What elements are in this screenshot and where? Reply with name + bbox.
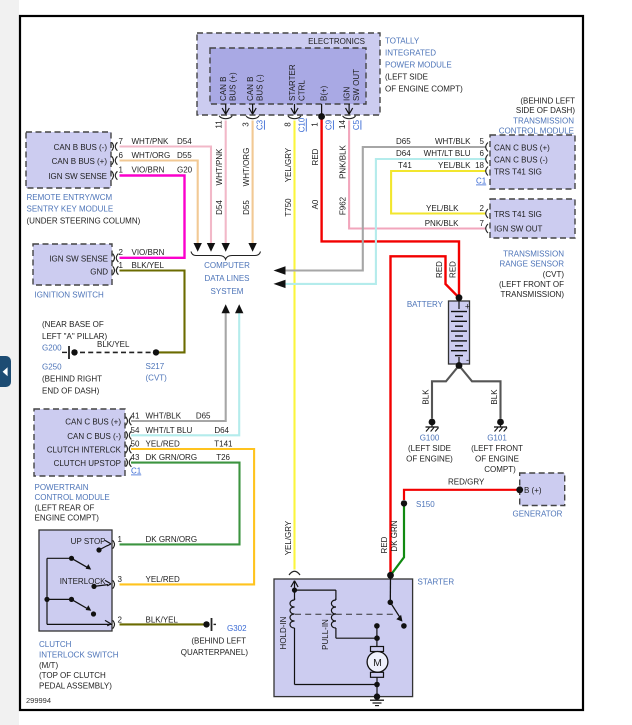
- svg-text:C9: C9: [325, 119, 334, 130]
- svg-text:INTERLOCK: INTERLOCK: [60, 577, 106, 586]
- svg-text:CAN C BUS (-): CAN C BUS (-): [494, 156, 548, 165]
- svg-text:GND: GND: [90, 267, 108, 276]
- svg-text:(BEHIND LEFT: (BEHIND LEFT: [520, 97, 575, 106]
- svg-text:+: +: [465, 302, 470, 312]
- svg-text:299994: 299994: [26, 696, 51, 705]
- svg-text:T750: T750: [284, 198, 293, 217]
- svg-text:PULL-IN: PULL-IN: [321, 619, 330, 650]
- svg-text:D65: D65: [396, 137, 411, 146]
- svg-text:WHT/LT BLU: WHT/LT BLU: [146, 426, 193, 435]
- svg-text:C10: C10: [298, 117, 307, 132]
- svg-text:(CVT): (CVT): [543, 270, 565, 279]
- svg-text:BLK: BLK: [422, 389, 431, 405]
- svg-text:DK GRN: DK GRN: [390, 520, 399, 551]
- svg-text:-: -: [466, 355, 469, 365]
- svg-text:1: 1: [119, 261, 124, 270]
- svg-text:T41: T41: [398, 161, 412, 170]
- svg-text:TRS T41 SIG: TRS T41 SIG: [494, 168, 542, 177]
- svg-text:2: 2: [119, 248, 124, 257]
- svg-text:BLK/YEL: BLK/YEL: [132, 261, 165, 270]
- svg-text:43: 43: [131, 453, 140, 462]
- svg-text:F962: F962: [339, 196, 348, 215]
- svg-text:CAN B BUS (+): CAN B BUS (+): [52, 157, 108, 166]
- svg-text:POWER MODULE: POWER MODULE: [385, 61, 452, 70]
- svg-text:CLUTCH UPSTOP: CLUTCH UPSTOP: [54, 459, 121, 468]
- svg-text:BLK/YEL: BLK/YEL: [146, 615, 179, 624]
- svg-text:(LEFT FRONT OF: (LEFT FRONT OF: [499, 280, 564, 289]
- svg-text:IGN: IGN: [343, 87, 352, 101]
- svg-text:(TOP OF CLUTCH: (TOP OF CLUTCH: [39, 671, 106, 680]
- svg-text:T141: T141: [214, 440, 233, 449]
- svg-text:(NEAR BASE OF: (NEAR BASE OF: [42, 320, 104, 329]
- svg-text:1: 1: [118, 535, 123, 544]
- svg-text:COMPUTER: COMPUTER: [204, 261, 250, 270]
- svg-text:INTERLOCK SWITCH: INTERLOCK SWITCH: [39, 651, 119, 660]
- svg-text:CONTROL MODULE: CONTROL MODULE: [35, 493, 110, 502]
- svg-text:(BEHIND RIGHT: (BEHIND RIGHT: [42, 375, 102, 384]
- svg-text:RED/GRY: RED/GRY: [448, 478, 485, 487]
- svg-text:DK GRN/ORG: DK GRN/ORG: [146, 453, 198, 462]
- svg-text:IGN SW OUT: IGN SW OUT: [494, 225, 543, 234]
- svg-text:M: M: [373, 657, 382, 669]
- svg-text:50: 50: [131, 440, 140, 449]
- svg-text:(M/T): (M/T): [39, 661, 58, 670]
- svg-text:COMPT): COMPT): [484, 465, 516, 474]
- svg-text:CLUTCH: CLUTCH: [39, 640, 72, 649]
- svg-text:1: 1: [119, 166, 124, 175]
- svg-text:INTEGRATED: INTEGRATED: [385, 49, 436, 58]
- svg-text:7: 7: [119, 137, 124, 146]
- svg-text:YEL/RED: YEL/RED: [146, 575, 180, 584]
- svg-text:G100: G100: [420, 434, 440, 443]
- svg-text:IGN SW SENSE: IGN SW SENSE: [48, 172, 107, 181]
- svg-text:CAN B: CAN B: [219, 77, 228, 101]
- svg-text:VIO/BRN: VIO/BRN: [132, 248, 165, 257]
- svg-text:RED: RED: [380, 536, 389, 553]
- svg-text:G20: G20: [177, 166, 193, 175]
- svg-text:TOTALLY: TOTALLY: [385, 37, 420, 46]
- svg-text:G250: G250: [42, 363, 62, 372]
- svg-text:CTRL: CTRL: [298, 80, 307, 101]
- svg-text:3: 3: [118, 575, 123, 584]
- svg-text:DATA LINES: DATA LINES: [204, 274, 249, 283]
- svg-text:8: 8: [283, 122, 292, 127]
- svg-text:QUARTERPANEL): QUARTERPANEL): [181, 648, 249, 657]
- svg-text:UP STOP: UP STOP: [71, 537, 106, 546]
- svg-text:WHT/LT BLU: WHT/LT BLU: [424, 149, 471, 158]
- svg-text:CAN C BUS (+): CAN C BUS (+): [494, 144, 550, 153]
- svg-text:REMOTE ENTRY/WCM: REMOTE ENTRY/WCM: [27, 193, 113, 202]
- svg-text:END OF DASH): END OF DASH): [42, 387, 100, 396]
- svg-text:54: 54: [131, 426, 140, 435]
- svg-text:G200: G200: [42, 344, 62, 353]
- svg-text:STARTER: STARTER: [418, 578, 455, 587]
- svg-text:C5: C5: [352, 119, 361, 130]
- svg-text:YEL/BLK: YEL/BLK: [438, 161, 471, 170]
- svg-text:B(+): B(+): [320, 85, 329, 101]
- svg-text:(LEFT SIDE: (LEFT SIDE: [408, 444, 451, 453]
- svg-text:BLK: BLK: [490, 389, 499, 405]
- svg-text:11: 11: [215, 120, 224, 129]
- svg-text:YEL/GRY: YEL/GRY: [284, 520, 293, 555]
- svg-text:SW OUT: SW OUT: [352, 69, 361, 101]
- svg-text:(UNDER STEERING COLUMN): (UNDER STEERING COLUMN): [27, 217, 141, 226]
- svg-text:IGNITION SWITCH: IGNITION SWITCH: [35, 291, 105, 300]
- svg-text:CAN C BUS (+): CAN C BUS (+): [65, 418, 121, 427]
- svg-text:CAN B BUS (-): CAN B BUS (-): [54, 143, 108, 152]
- svg-text:TRS T41 SIG: TRS T41 SIG: [494, 210, 542, 219]
- svg-text:OF ENGINE): OF ENGINE): [406, 455, 453, 464]
- svg-text:S150: S150: [416, 500, 435, 509]
- svg-text:5: 5: [480, 137, 485, 146]
- svg-text:TRANSMISSION: TRANSMISSION: [503, 250, 564, 259]
- svg-text:WHT/BLK: WHT/BLK: [146, 412, 182, 421]
- svg-text:D64: D64: [396, 149, 411, 158]
- svg-text:D54: D54: [177, 137, 192, 146]
- svg-text:TRANSMISSION: TRANSMISSION: [513, 117, 574, 126]
- svg-text:CAN B: CAN B: [246, 77, 255, 101]
- svg-text:A0: A0: [311, 199, 320, 209]
- svg-text:BUS (+): BUS (+): [229, 72, 238, 101]
- svg-text:D55: D55: [177, 151, 192, 160]
- svg-text:GENERATOR: GENERATOR: [513, 510, 563, 519]
- svg-text:POWERTRAIN: POWERTRAIN: [35, 483, 89, 492]
- svg-text:(CVT): (CVT): [146, 374, 168, 383]
- svg-text:YEL/BLK: YEL/BLK: [426, 204, 459, 213]
- svg-text:3: 3: [241, 122, 250, 127]
- svg-text:RED: RED: [449, 261, 458, 278]
- svg-text:T26: T26: [216, 453, 230, 462]
- svg-text:C3: C3: [256, 119, 265, 130]
- svg-text:SIDE OF DASH): SIDE OF DASH): [516, 106, 575, 115]
- svg-text:18: 18: [475, 161, 484, 170]
- svg-text:PNK/BLK: PNK/BLK: [339, 144, 348, 178]
- svg-text:BATTERY: BATTERY: [407, 300, 444, 309]
- svg-text:7: 7: [480, 219, 485, 228]
- svg-text:OF ENGINE: OF ENGINE: [475, 455, 519, 464]
- svg-text:6: 6: [119, 151, 124, 160]
- svg-text:WHT/ORG: WHT/ORG: [132, 151, 171, 160]
- svg-text:TRANSMISSION): TRANSMISSION): [500, 290, 564, 299]
- svg-text:(LEFT SIDE: (LEFT SIDE: [385, 73, 428, 82]
- svg-text:(BEHIND LEFT: (BEHIND LEFT: [191, 637, 246, 646]
- svg-text:B (+): B (+): [524, 486, 542, 495]
- svg-text:PEDAL ASSEMBLY): PEDAL ASSEMBLY): [39, 681, 112, 690]
- svg-text:BLK/YEL: BLK/YEL: [97, 340, 130, 349]
- svg-text:2: 2: [480, 204, 485, 213]
- svg-text:(LEFT REAR OF: (LEFT REAR OF: [35, 503, 95, 512]
- svg-text:ENGINE COMPT): ENGINE COMPT): [35, 514, 100, 523]
- svg-text:CLUTCH INTERLCK: CLUTCH INTERLCK: [47, 446, 122, 455]
- svg-text:SYSTEM: SYSTEM: [211, 287, 244, 296]
- svg-text:RED: RED: [435, 261, 444, 278]
- svg-text:D64: D64: [214, 426, 229, 435]
- svg-text:G101: G101: [487, 434, 507, 443]
- svg-text:VIO/BRN: VIO/BRN: [132, 166, 165, 175]
- svg-text:WHT/PNK: WHT/PNK: [132, 137, 170, 146]
- svg-text:CAN C BUS (-): CAN C BUS (-): [67, 432, 121, 441]
- svg-text:C1: C1: [476, 177, 487, 186]
- svg-text:DK GRN/ORG: DK GRN/ORG: [146, 535, 198, 544]
- svg-text:2: 2: [118, 615, 123, 624]
- svg-text:6: 6: [480, 149, 485, 158]
- svg-text:CONTROL MODULE: CONTROL MODULE: [499, 127, 574, 136]
- svg-text:WHT/PNK: WHT/PNK: [215, 148, 224, 186]
- svg-text:YEL/GRY: YEL/GRY: [284, 147, 293, 182]
- svg-text:IGN SW SENSE: IGN SW SENSE: [49, 254, 108, 263]
- svg-text:WHT/ORG: WHT/ORG: [242, 148, 251, 187]
- svg-text:YEL/RED: YEL/RED: [146, 440, 180, 449]
- svg-text:1: 1: [310, 122, 319, 127]
- svg-text:G302: G302: [227, 624, 247, 633]
- svg-text:RED: RED: [311, 148, 320, 165]
- svg-text:D65: D65: [196, 412, 211, 421]
- svg-text:D54: D54: [215, 200, 224, 215]
- svg-text:14: 14: [338, 120, 347, 129]
- svg-text:BUS (-): BUS (-): [256, 74, 265, 101]
- svg-text:ELECTRONICS: ELECTRONICS: [308, 37, 365, 46]
- svg-text:OF ENGINE COMPT): OF ENGINE COMPT): [385, 85, 463, 94]
- svg-text:41: 41: [131, 412, 140, 421]
- svg-text:HOLD-IN: HOLD-IN: [279, 616, 288, 649]
- svg-text:(LEFT FRONT: (LEFT FRONT: [471, 444, 523, 453]
- svg-text:S217: S217: [146, 362, 165, 371]
- svg-text:STARTER: STARTER: [288, 64, 297, 101]
- svg-text:WHT/BLK: WHT/BLK: [435, 137, 471, 146]
- svg-text:C1: C1: [131, 467, 142, 476]
- svg-text:PNK/BLK: PNK/BLK: [425, 219, 459, 228]
- svg-text:SENTRY KEY MODULE: SENTRY KEY MODULE: [27, 205, 114, 214]
- svg-text:D55: D55: [242, 200, 251, 215]
- svg-text:RANGE SENSOR: RANGE SENSOR: [500, 260, 565, 269]
